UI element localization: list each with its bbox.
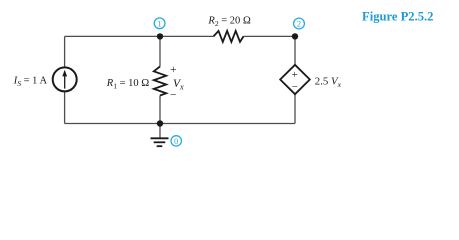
svg-text:+: + (170, 64, 177, 76)
svg-text:2: 2 (297, 19, 301, 29)
svg-text:−: − (170, 90, 177, 102)
svg-text:2.5 Vx: 2.5 Vx (315, 75, 342, 89)
svg-text:IS = 1 A: IS = 1 A (13, 75, 48, 88)
svg-text:0: 0 (174, 136, 179, 146)
svg-text:1: 1 (157, 18, 161, 28)
svg-text:R1 = 10 Ω: R1 = 10 Ω (106, 78, 150, 91)
svg-text:Figure P2.5.2: Figure P2.5.2 (362, 10, 433, 24)
svg-text:R2 = 20 Ω: R2 = 20 Ω (207, 15, 251, 28)
svg-text:+: + (292, 69, 298, 81)
svg-text:−: − (292, 81, 298, 93)
